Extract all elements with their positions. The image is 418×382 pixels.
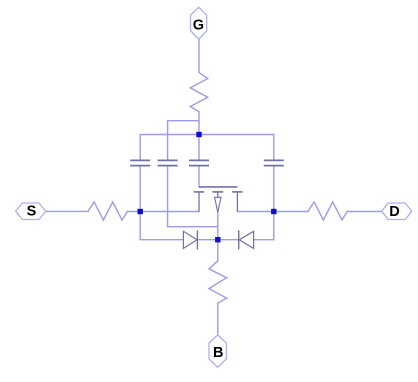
svg-text:S: S <box>27 203 37 219</box>
svg-text:D: D <box>389 204 399 220</box>
svg-text:G: G <box>193 18 204 34</box>
svg-text:B: B <box>213 345 223 361</box>
